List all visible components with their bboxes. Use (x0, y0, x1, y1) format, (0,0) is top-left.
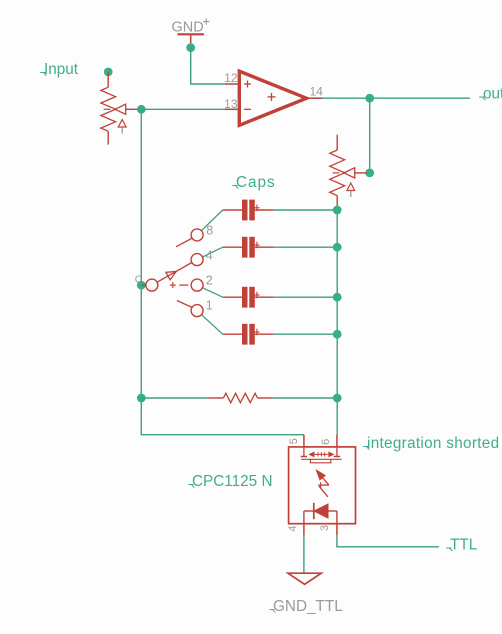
wire switch throw 1 to C4 (202, 315, 223, 335)
svg-text:Caps: Caps (236, 174, 276, 191)
potentiometer R2 (330, 135, 367, 210)
label Input (40, 61, 79, 78)
svg-text:6: 6 (320, 439, 332, 445)
switch throw 1 (177, 298, 213, 316)
svg-text:13: 13 (224, 97, 238, 111)
svg-text:4: 4 (206, 248, 213, 262)
U2 pin 5 (288, 435, 304, 447)
wire switch throw 4 to C2 (203, 247, 223, 257)
U2 pin 4 (287, 524, 304, 535)
supply symbol GND_TTL (288, 573, 321, 584)
svg-text:out: out (483, 86, 502, 103)
wire switch throw 2 to C3 (203, 288, 223, 298)
U2 pin 6 (320, 435, 337, 447)
wire resistor R3 right (273, 397, 338, 399)
junction resistor left (137, 394, 146, 403)
svg-text:8: 8 (206, 224, 213, 238)
svg-text:3: 3 (319, 525, 331, 531)
wire to resistor R3 left (141, 397, 208, 399)
junction output node (365, 94, 374, 103)
svg-text:5: 5 (288, 438, 300, 444)
label TTL (446, 537, 477, 554)
switch throw 2 (191, 273, 213, 291)
capacitor C1 (223, 200, 274, 221)
wire C4 to bus (274, 333, 338, 335)
svg-text:2: 2 (206, 273, 213, 287)
svg-text:4: 4 (287, 525, 299, 531)
op-amp U1 (224, 71, 323, 125)
wire C3 to bus (274, 296, 338, 298)
junction pot R1 wiper node (137, 105, 146, 114)
capacitor C4 (223, 324, 274, 345)
svg-text:GND_TTL: GND_TTL (273, 598, 343, 615)
svg-text:Input: Input (44, 61, 79, 78)
potentiometer R1 (101, 72, 140, 145)
junction C2 bus (333, 243, 342, 252)
wire output to pot R2 wiper (369, 98, 371, 173)
node Input (104, 68, 113, 77)
supply symbol GND (172, 18, 210, 47)
junction pot R2 wiper (365, 169, 374, 178)
junction C4 bus (333, 330, 342, 339)
label out (479, 86, 502, 103)
resistor R3 (208, 393, 272, 402)
junction C3 bus (333, 293, 342, 302)
svg-text:14: 14 (310, 85, 324, 99)
U2 output MOSFET pair (301, 447, 342, 463)
switch throw 8 (176, 224, 213, 247)
wire GND to op-amp pin 12 (191, 48, 225, 84)
U2 input LED diode (304, 503, 337, 524)
wire to op-amp pin 13 (141, 108, 224, 110)
junction resistor right (333, 394, 342, 403)
wire C1 to bus (274, 209, 338, 211)
capacitor C2 (223, 237, 274, 258)
wire switch throw 8 to C1 (201, 210, 222, 231)
switch throw 4 (191, 248, 213, 265)
U2 pin 3 (319, 524, 337, 535)
svg-text:12: 12 (224, 71, 238, 85)
wire capacitor right bus (336, 210, 338, 398)
wire to U2 pin 5 (141, 398, 304, 435)
wire to U2 pin 6 (336, 398, 338, 435)
junction C1 bus (333, 206, 342, 215)
svg-text:TTL: TTL (450, 537, 477, 554)
label Caps (232, 174, 276, 191)
svg-text:1: 1 (206, 298, 213, 312)
label CPC1125 N (188, 473, 272, 490)
switch S1 (141, 263, 192, 292)
U2 LED arrow indicator (316, 470, 329, 497)
wire op-amp output (323, 97, 471, 99)
relay U2 CPC1125 box (289, 447, 356, 524)
label integration shorted (363, 435, 499, 452)
wire U2 pin 3 to TTL (337, 535, 439, 547)
svg-text:CPC1125 N: CPC1125 N (192, 473, 273, 490)
svg-text:integration shorted: integration shorted (367, 435, 499, 452)
wire left vertical bus (140, 109, 142, 398)
label GND_TTL (269, 598, 343, 615)
junction GND net (186, 43, 195, 52)
wire U2 pin 4 to GND_TTL (303, 535, 305, 573)
wire C2 to bus (274, 246, 338, 248)
capacitor C3 (223, 287, 274, 308)
